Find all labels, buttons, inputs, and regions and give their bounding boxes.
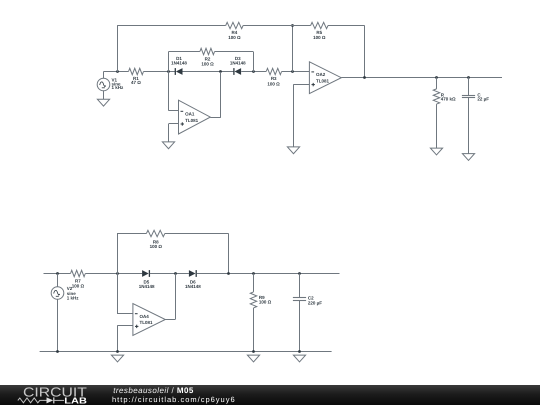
resistor R5 100 Ohm (311, 22, 328, 40)
diode D1 1N4148 (171, 56, 187, 75)
node output/C junction (467, 76, 470, 79)
ground below R9 (247, 355, 259, 362)
svg-text:OA4: OA4 (140, 314, 150, 319)
wire node up to top rail (117, 25, 119, 72)
node OA2 inverting input junction (291, 70, 294, 73)
node D3/R2 junction (252, 70, 255, 73)
node R9 bottom junction (252, 350, 255, 353)
node A (OA1 inverting input node) (167, 70, 170, 73)
svg-text:1 kHz: 1 kHz (67, 296, 80, 301)
node R8-right junction (227, 272, 230, 275)
svg-text:100 Ω: 100 Ω (150, 244, 163, 249)
bottom ground rail (40, 351, 332, 353)
logo wordmark LAB (64, 395, 87, 405)
node C2 bottom junction (298, 350, 301, 353)
svg-text:22 µF: 22 µF (477, 97, 489, 102)
wire OA4 noninverting input down to rail (117, 326, 133, 352)
top rail wire middle (243, 25, 311, 27)
footer line 2: url (112, 395, 236, 404)
svg-text:1N4148: 1N4148 (139, 284, 155, 289)
wire D1 to OA1 output node (183, 71, 234, 73)
ground below C2 (293, 355, 305, 362)
node OA1 output junction (219, 70, 222, 73)
bottom main wire left stub (44, 273, 71, 275)
node V2 bottom junction (56, 350, 59, 353)
wire OA2 noninverting input to ground (293, 85, 309, 147)
footer line 1: user / title (113, 385, 194, 394)
footer bar (0, 385, 540, 405)
wire OA4 output (165, 274, 175, 320)
capacitor C2 220 uF (293, 274, 322, 352)
svg-text:100 Ω: 100 Ω (72, 283, 85, 288)
capacitor C 22 uF (462, 77, 489, 153)
ground below OA2 (287, 147, 299, 154)
node OA4 ground junction (116, 350, 119, 353)
node R9 junction (252, 272, 255, 275)
node V2/top junction (56, 272, 59, 275)
top rail wire left (117, 25, 226, 27)
ground below OA1 (162, 142, 174, 149)
resistor R3 100 Ohm (266, 68, 281, 86)
node C2 junction (298, 272, 301, 275)
svg-text:1 kHz: 1 kHz (112, 85, 125, 90)
svg-text:OA1: OA1 (185, 112, 195, 117)
svg-text:LAB: LAB (64, 395, 87, 405)
svg-text:R3: R3 (271, 76, 277, 81)
voltage source V2 sine 1kHz (51, 274, 79, 352)
resistor R9 100 Ohm (250, 274, 271, 352)
wire OA1 output (210, 72, 221, 118)
wire R3 to OA2 (282, 71, 310, 73)
svg-text:100 Ω: 100 Ω (259, 300, 272, 305)
resistor R8 100 Ohm feedback (117, 230, 229, 273)
node output/R junction (435, 76, 438, 79)
node OA4 output junction (174, 272, 177, 275)
voltage source V1 sine 1kHz (97, 72, 124, 99)
ground below V1 (97, 99, 109, 106)
diode D5 1N4148 (139, 270, 155, 289)
svg-text:http://circuitlab.com/cp6yuy6: http://circuitlab.com/cp6yuy6 (112, 395, 236, 404)
op-amp OA2 TL081 (309, 62, 341, 94)
svg-text:1N4148: 1N4148 (230, 61, 246, 66)
diode D6 1N4148 (185, 270, 201, 289)
ground below OA4 node (111, 355, 123, 362)
wire OA4 inverting input (117, 274, 133, 314)
wire OA1 noninverting input to ground (169, 124, 179, 142)
ground below R (430, 148, 442, 155)
op-amp OA1 TL081 (179, 100, 211, 134)
wire D3 to R2 right leg (241, 71, 266, 73)
svg-text:1N4148: 1N4148 (171, 61, 187, 66)
resistor R4 100 Ohm (226, 22, 243, 40)
wire V1 to R1 (103, 71, 128, 73)
resistor R2 100 Ohm feedback (168, 48, 253, 72)
svg-text:TL081: TL081 (185, 118, 199, 123)
top rail wire right and down to output (328, 25, 365, 77)
svg-text:TL081: TL081 (140, 320, 154, 325)
ground below C (462, 154, 474, 161)
svg-text:tresbeausoleil / M05: tresbeausoleil / M05 (113, 385, 194, 394)
svg-text:100 Ω: 100 Ω (228, 35, 241, 40)
logo resistor-diode glyph (18, 398, 47, 403)
node R8-left/OA4-inv junction (116, 272, 119, 275)
node on top rail (291, 24, 294, 27)
wire D5 to OA4 output node (150, 273, 189, 275)
svg-text:OA2: OA2 (316, 72, 326, 77)
node output/R5 junction (363, 76, 366, 79)
svg-text:100 Ω: 100 Ω (201, 62, 214, 67)
resistor R1 47 Ohm (129, 68, 144, 85)
svg-text:220 µF: 220 µF (308, 301, 322, 306)
wire D6 to right (197, 273, 340, 275)
diode D3 1N4148 (230, 56, 246, 75)
wire OA1 inverting input (168, 72, 178, 111)
wire OA2 node up to top rail (292, 25, 294, 72)
svg-text:47 Ω: 47 Ω (131, 80, 141, 85)
svg-text:1N4148: 1N4148 (185, 284, 201, 289)
resistor R7 100 Ohm (71, 270, 86, 288)
resistor R 470 kOhm (433, 77, 456, 148)
node junction V1/R1/top-rail (116, 70, 119, 73)
output wire OA2 to right (341, 77, 502, 79)
svg-text:100 Ω: 100 Ω (313, 35, 326, 40)
svg-text:470 kΩ: 470 kΩ (441, 97, 456, 102)
svg-text:TL081: TL081 (316, 78, 330, 83)
CircuitLab logo wordmark CIRCUIT (23, 384, 87, 399)
op-amp OA4 TL081 (133, 304, 165, 336)
svg-text:100 Ω: 100 Ω (267, 81, 280, 86)
wire R1 to D1 node (144, 71, 176, 73)
wire R7 to D5 (85, 273, 142, 275)
